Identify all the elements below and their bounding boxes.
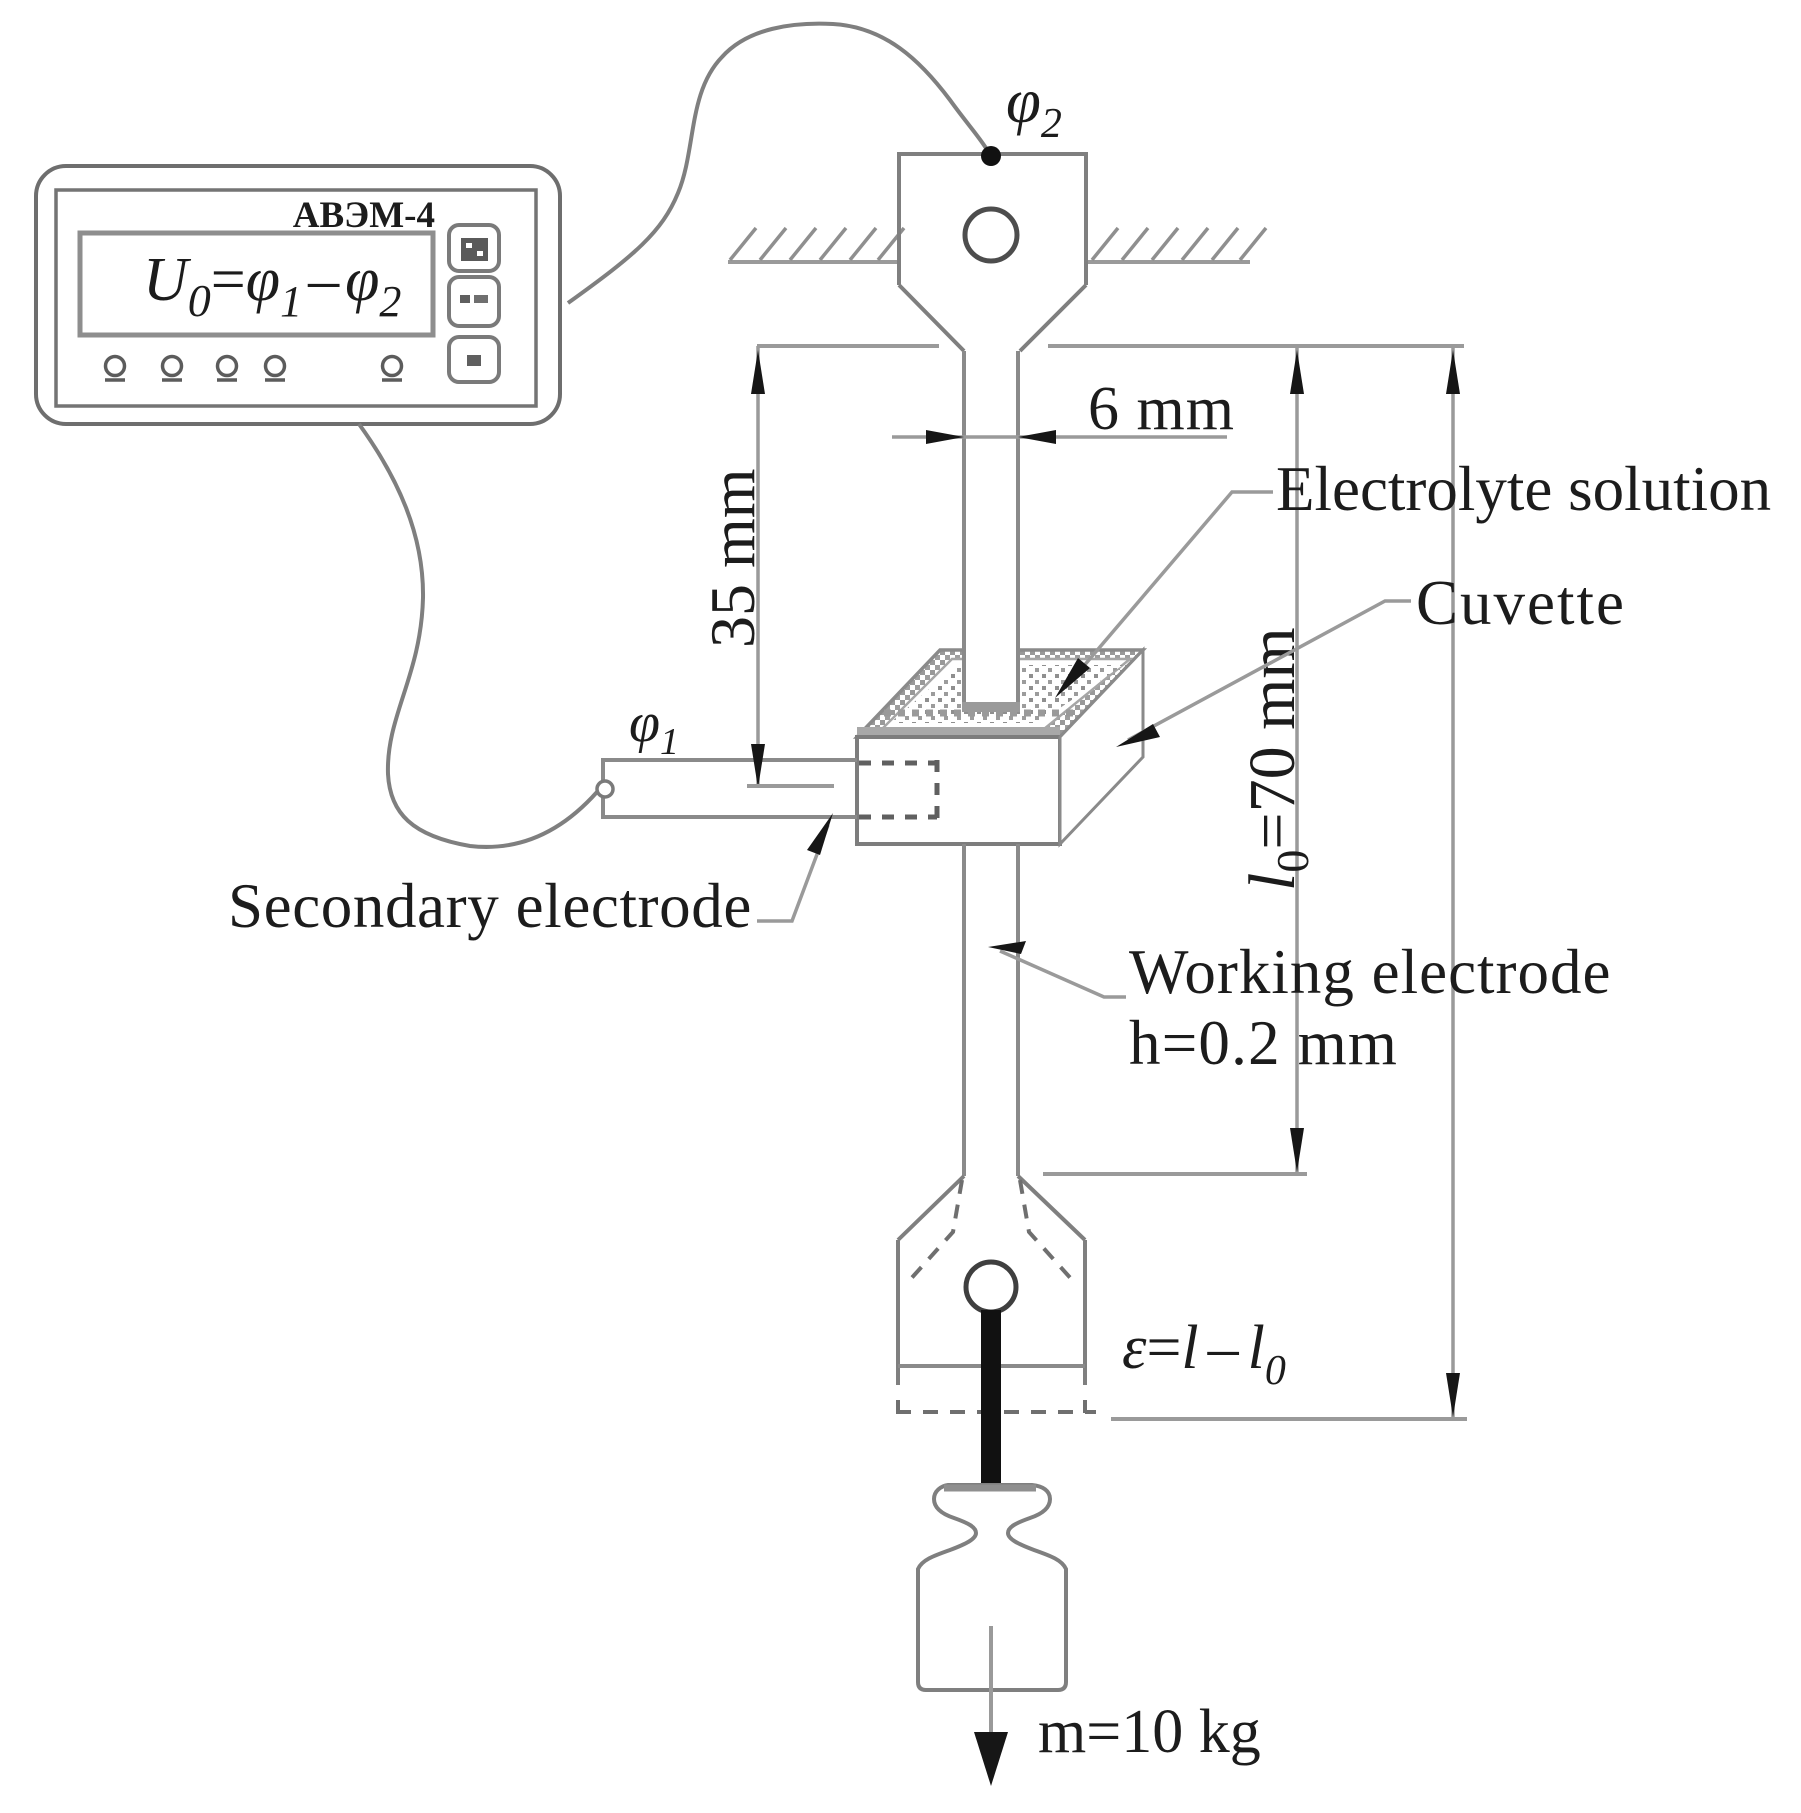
svg-text:h=0.2 mm: h=0.2 mm <box>1129 1008 1398 1078</box>
lower grip bottom line <box>898 1364 1085 1368</box>
button B1 <box>449 225 499 271</box>
force arrow inside weight <box>989 1626 993 1736</box>
strip upper segment <box>962 351 966 708</box>
lower grip body sides <box>898 1240 1085 1385</box>
svg-text:Electrolyte solution: Electrolyte solution <box>1276 454 1771 524</box>
svg-text:АВЭМ-4: АВЭМ-4 <box>293 195 435 236</box>
terminal T1 <box>105 357 125 381</box>
cuvette leader <box>1128 601 1411 740</box>
device outer case <box>36 166 560 424</box>
svg-text:m=10 kg: m=10 kg <box>1038 1698 1261 1766</box>
cuvette front rim band <box>857 727 1060 737</box>
electrolyte solution leader <box>1065 492 1273 688</box>
hidden specimen head in lower grip (dashed) <box>908 1180 1074 1282</box>
secondary electrode leader <box>757 825 828 921</box>
strip passing through liquid (occludes back rim) <box>964 351 1018 708</box>
upper grip outline <box>899 154 1086 351</box>
overall length dimension line <box>1451 346 1455 1418</box>
button B2 <box>449 277 499 326</box>
35 mm dimension line <box>756 346 760 786</box>
svg-text:Secondary electrode: Secondary electrode <box>228 871 752 941</box>
svg-text:Cuvette: Cuvette <box>1416 568 1626 638</box>
ground hatch marks right <box>1092 228 1266 260</box>
weight knob top bar <box>944 1485 1036 1492</box>
ground line right <box>1086 260 1250 264</box>
device inner panel <box>56 190 536 406</box>
svg-text:6 mm: 6 mm <box>1088 375 1235 443</box>
lower grip dashed bottom (shifted position) <box>896 1400 1096 1413</box>
button B3 <box>449 337 499 382</box>
cuvette top face <box>857 650 1143 737</box>
terminal T4 <box>265 357 285 381</box>
hanging rod (black) <box>981 1310 1001 1488</box>
top reference line <box>757 344 939 348</box>
svg-text:35 mm: 35 mm <box>697 468 768 648</box>
strip lower segment <box>962 844 966 1176</box>
ground line left <box>728 260 899 264</box>
phi2 connection dot <box>981 146 1001 166</box>
lower grip flare <box>898 1176 1085 1240</box>
liquid surface band on strip <box>962 702 1020 712</box>
cuvette right face <box>1060 650 1143 844</box>
svg-text:Working electrode: Working electrode <box>1129 937 1612 1007</box>
ground hatch marks left <box>730 228 904 260</box>
weight body outline <box>918 1485 1066 1690</box>
working electrode leader <box>1000 951 1126 997</box>
wire from device right side to phi2 terminal on upper grip <box>568 24 989 303</box>
6 mm dimension line <box>892 435 1227 439</box>
cuvette front face <box>857 737 1060 844</box>
hidden secondary electrode inside cuvette (dashed) <box>859 760 937 820</box>
upper grip pin hole <box>965 209 1017 261</box>
terminal T2 <box>162 357 182 381</box>
terminal T3 <box>217 357 237 381</box>
device display window <box>80 233 433 335</box>
l0=70 mm dimension line <box>1295 346 1299 1173</box>
wire from device bottom to secondary electrode terminal <box>359 424 597 847</box>
terminal T5 <box>382 357 402 381</box>
lower grip pin hole <box>966 1262 1016 1312</box>
wire terminal circle on secondary electrode <box>597 781 613 797</box>
